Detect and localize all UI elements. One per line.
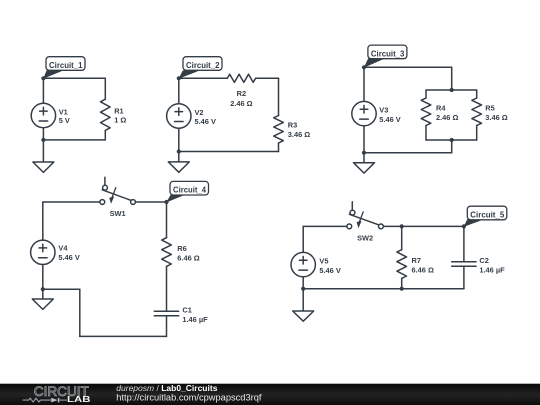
resistor R2 xyxy=(227,74,255,82)
wire xyxy=(42,265,44,290)
svg-text:R4: R4 xyxy=(436,104,446,113)
wire xyxy=(302,277,304,289)
svg-text:dureposm / Lab0_Circuits: dureposm / Lab0_Circuits xyxy=(116,383,217,393)
wire xyxy=(363,126,365,153)
svg-text:V2: V2 xyxy=(195,108,204,117)
svg-text:1.46 µF: 1.46 µF xyxy=(479,265,505,274)
wire xyxy=(104,130,106,140)
wire xyxy=(364,66,452,68)
svg-text:5.46 V: 5.46 V xyxy=(195,117,216,126)
svg-text:R5: R5 xyxy=(485,104,494,113)
junction xyxy=(362,151,366,155)
wire xyxy=(463,226,465,261)
junction xyxy=(362,65,366,69)
svg-text:V1: V1 xyxy=(59,107,68,116)
switch SW1 xyxy=(100,177,136,204)
svg-text:6.46 Ω: 6.46 Ω xyxy=(177,253,199,262)
voltage source V5 xyxy=(291,252,315,276)
logo CircuitLab xyxy=(23,384,91,404)
wire xyxy=(136,201,167,203)
svg-text:C2: C2 xyxy=(479,256,488,265)
ground xyxy=(293,289,314,322)
wire xyxy=(256,77,279,79)
resistor R7 xyxy=(397,250,407,279)
svg-text:V5: V5 xyxy=(319,256,328,265)
wire xyxy=(302,226,304,252)
junction xyxy=(177,76,181,80)
junction xyxy=(462,224,466,228)
wire xyxy=(178,78,180,104)
resistor R1 xyxy=(101,99,111,130)
junction xyxy=(41,287,45,291)
svg-text:5.46 V: 5.46 V xyxy=(379,115,400,124)
resistor R3 xyxy=(274,116,284,144)
wire xyxy=(42,128,44,140)
wire xyxy=(43,201,100,203)
wire xyxy=(363,67,365,101)
svg-text:R7: R7 xyxy=(412,256,421,265)
ground xyxy=(354,153,375,173)
junction xyxy=(450,138,454,142)
wire xyxy=(278,78,280,115)
wire xyxy=(401,278,403,288)
wire xyxy=(303,225,347,227)
wire xyxy=(80,335,167,337)
junction xyxy=(41,76,45,80)
ground xyxy=(168,152,189,173)
wire xyxy=(179,151,279,153)
wire xyxy=(476,90,478,98)
wire xyxy=(384,225,464,227)
svg-text:C1: C1 xyxy=(182,305,191,314)
svg-text:5 V: 5 V xyxy=(59,116,70,125)
wire xyxy=(42,202,44,240)
wire xyxy=(178,128,180,151)
wire xyxy=(166,266,168,311)
svg-text:Circuit_5: Circuit_5 xyxy=(470,209,504,219)
wire xyxy=(426,139,477,141)
wire xyxy=(425,90,427,98)
capacitor C1 xyxy=(154,311,178,316)
svg-text:R1: R1 xyxy=(114,107,123,116)
svg-text:2.46 Ω: 2.46 Ω xyxy=(436,113,458,122)
wire xyxy=(43,139,105,141)
capacitor C2 xyxy=(452,262,476,267)
resistor R4 xyxy=(421,98,431,126)
wire xyxy=(179,77,228,79)
voltage source V1 xyxy=(31,103,55,127)
svg-text:5.46 V: 5.46 V xyxy=(319,266,340,275)
svg-text:3.46 Ω: 3.46 Ω xyxy=(485,113,507,122)
wire xyxy=(425,126,427,141)
wire xyxy=(476,126,478,141)
resistor R6 xyxy=(162,238,172,267)
svg-text:R6: R6 xyxy=(177,244,186,253)
switch SW2 xyxy=(347,202,383,229)
node Circuit_3 xyxy=(364,45,407,68)
svg-text:1 Ω: 1 Ω xyxy=(114,116,126,125)
wire xyxy=(451,140,453,153)
node Circuit_4 xyxy=(166,181,208,202)
svg-text:SW2: SW2 xyxy=(357,233,373,242)
footer title text xyxy=(116,383,262,403)
svg-text:SW1: SW1 xyxy=(110,209,126,218)
svg-text:2.46 Ω: 2.46 Ω xyxy=(230,99,252,108)
junction xyxy=(164,200,168,204)
ground xyxy=(32,289,53,309)
svg-text:1.46 µF: 1.46 µF xyxy=(182,315,208,324)
resistor R5 xyxy=(472,98,482,126)
wire xyxy=(451,67,453,90)
svg-text:Circuit_1: Circuit_1 xyxy=(49,60,83,70)
wire xyxy=(401,226,403,249)
footer bar xyxy=(0,384,540,405)
svg-text:Circuit_3: Circuit_3 xyxy=(371,48,405,58)
wire xyxy=(104,78,106,99)
svg-text:Circuit_2: Circuit_2 xyxy=(186,60,220,70)
svg-text:3.46 Ω: 3.46 Ω xyxy=(288,130,310,139)
wire xyxy=(426,89,477,91)
svg-text:V3: V3 xyxy=(379,105,388,114)
svg-text:LAB: LAB xyxy=(67,395,91,404)
wire xyxy=(166,202,168,238)
voltage source V3 xyxy=(352,101,376,125)
junction xyxy=(400,287,404,291)
wire xyxy=(79,289,81,336)
wire xyxy=(463,266,465,289)
svg-text:V4: V4 xyxy=(58,243,68,252)
junction xyxy=(177,149,181,153)
junction xyxy=(41,138,45,142)
ground xyxy=(33,140,54,173)
junction xyxy=(400,224,404,228)
wire xyxy=(166,316,168,337)
junction xyxy=(450,88,454,92)
voltage source V2 xyxy=(167,104,191,128)
wire xyxy=(42,78,44,103)
wire xyxy=(43,288,80,290)
node Circuit_1 xyxy=(43,57,85,79)
voltage source V4 xyxy=(31,240,55,264)
svg-text:R2: R2 xyxy=(237,89,246,98)
node Circuit_5 xyxy=(464,206,507,227)
wire xyxy=(364,152,452,154)
node Circuit_2 xyxy=(179,57,222,79)
junction xyxy=(301,287,305,291)
wire xyxy=(303,288,464,290)
svg-text:http://circuitlab.com/cpwpapsc: http://circuitlab.com/cpwpapscd3rqf xyxy=(116,393,262,403)
svg-text:5.46 V: 5.46 V xyxy=(58,253,79,262)
wire xyxy=(43,77,105,79)
svg-text:Circuit_4: Circuit_4 xyxy=(173,185,206,195)
svg-text:6.46 Ω: 6.46 Ω xyxy=(412,265,434,274)
wire xyxy=(278,143,280,152)
svg-text:R3: R3 xyxy=(288,121,297,130)
